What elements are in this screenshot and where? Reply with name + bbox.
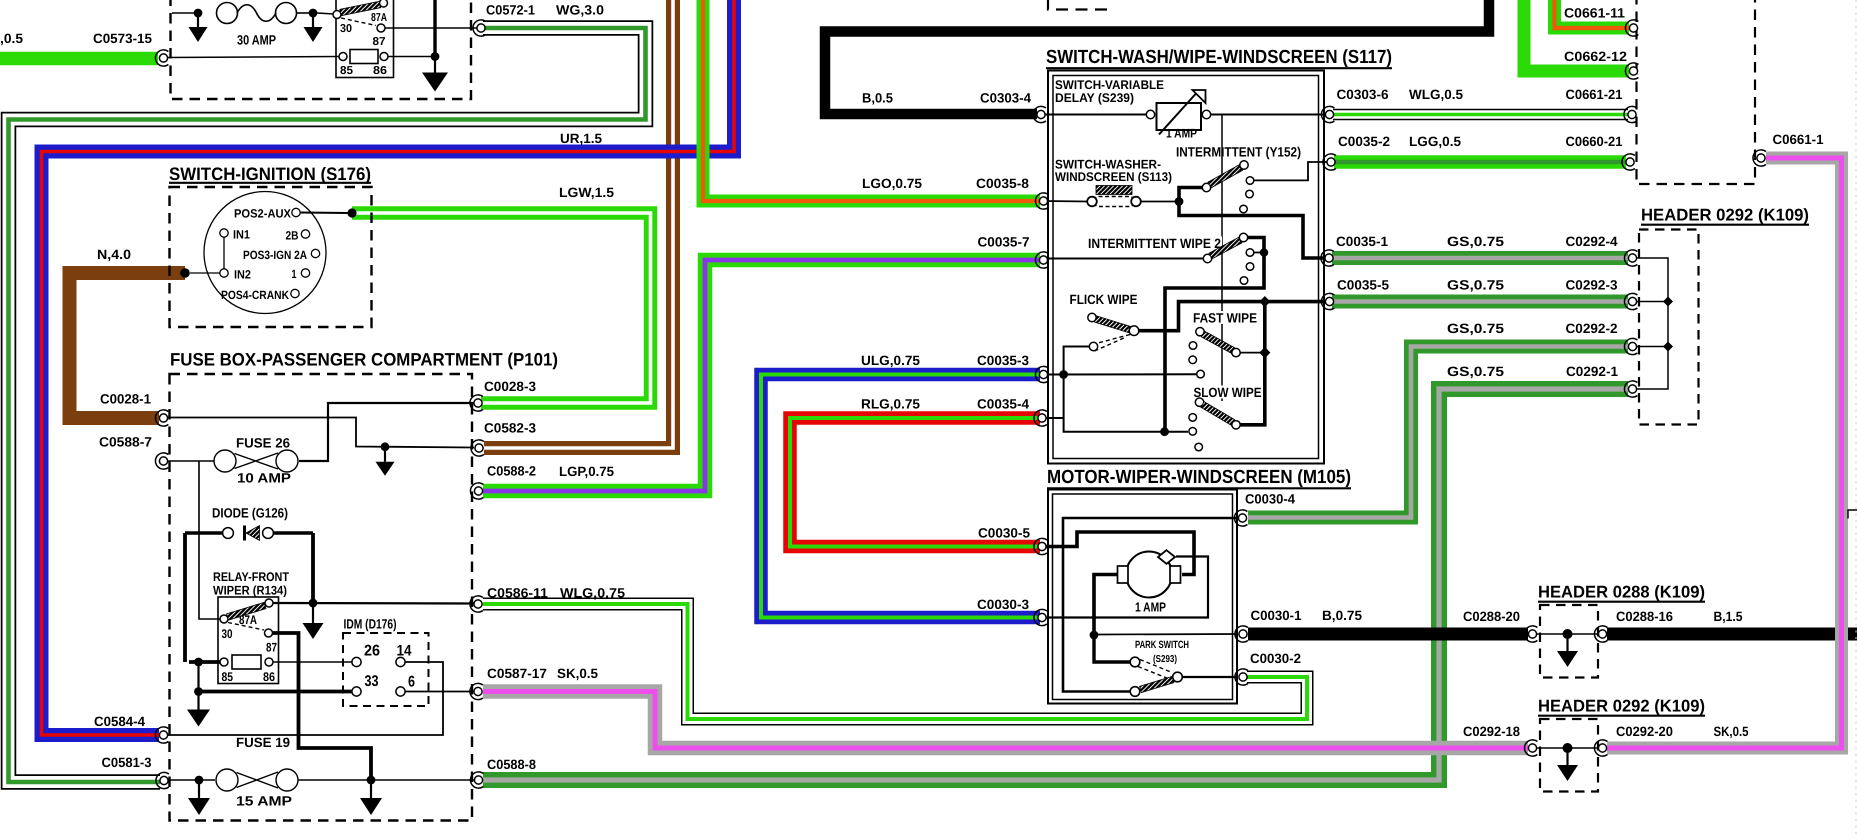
pin IN2 [220, 269, 228, 277]
junction LGW start [347, 208, 356, 217]
wire C0030-3 to motor diamond [1044, 557, 1208, 618]
slow contact 3 [1195, 443, 1203, 451]
junction wipe2 contact [1260, 248, 1268, 256]
junction fuse 19 row right [367, 776, 376, 785]
wire C0030-5 to motor brush right [1044, 532, 1194, 575]
wire C0030-4 into box [1063, 518, 1238, 692]
connector C0661-1 [1753, 150, 1766, 166]
wire UR,1.5 top edge to C0584-4 [42, 0, 735, 735]
flick pivot [1129, 326, 1139, 336]
wire 86 to IDM pin 26 [273, 661, 352, 663]
connector C0303-6 [1321, 106, 1334, 122]
wire LGP,0.75 C0588-2 to C0035-7 [483, 260, 1040, 491]
svg-text:C0292-1: C0292-1 [1566, 364, 1618, 379]
svg-text:RLG,0.75: RLG,0.75 [861, 397, 920, 412]
svg-text:C0581-3: C0581-3 [102, 755, 152, 770]
IDM pin 26 [352, 657, 361, 666]
wire WLG,0.5 C0303-6 to C0661-21 [1333, 109, 1628, 121]
connector C0584-4 [155, 727, 168, 743]
svg-text:MOTOR-WIPER-WINDSCREEN (M105): MOTOR-WIPER-WINDSCREEN (M105) [1047, 467, 1351, 488]
wire pin 87 to C0572-1 [385, 27, 478, 29]
svg-text:C0588-7: C0588-7 [99, 435, 152, 450]
svg-text:DIODE (G126): DIODE (G126) [212, 506, 288, 521]
connector C0292-3 [1624, 293, 1637, 309]
svg-text:C0588-8: C0588-8 [487, 757, 536, 772]
svg-text:C0582-3: C0582-3 [484, 421, 536, 436]
wire ULG,0.75 C0035-3 to C0030-3 [761, 375, 1040, 618]
IDM pin 6 [396, 687, 405, 696]
svg-text:IDM (D176): IDM (D176) [344, 617, 397, 632]
svg-text:FUSE 19: FUSE 19 [236, 735, 290, 750]
junction slow row [1160, 427, 1169, 436]
svg-text:SWITCH-IGNITION (S176): SWITCH-IGNITION (S176) [169, 164, 371, 184]
svg-text:85: 85 [340, 65, 354, 77]
svg-text:C0572-1: C0572-1 [486, 3, 535, 18]
ground below relay [422, 57, 448, 92]
underline HEADER 0288 [1538, 601, 1705, 603]
fast contact 1 [1189, 342, 1197, 350]
wire Y152 contact1 to C0035-2 [1254, 162, 1328, 180]
wire R134 87 down and to fuse 19 row [273, 633, 372, 778]
connector C0292-20 [1594, 740, 1607, 756]
wipe2 pivot [1203, 254, 1211, 262]
wire 33 row to IDM pin 33 [199, 690, 352, 694]
svg-text:(S293): (S293) [1153, 654, 1177, 665]
wire B,1.5 C0288-16 to right edge [1607, 628, 1857, 641]
R134 pin 30 pivot [220, 615, 228, 623]
resistor pin right [1202, 110, 1210, 118]
wipe2 contact 2 [1246, 263, 1254, 271]
relay pin 30 pivot [333, 11, 341, 19]
park dashed blade b [1138, 667, 1168, 679]
wire pin 86 to junction [388, 56, 435, 58]
wire top edge down to 86 row [433, 0, 436, 57]
wire tap down to relay pin 30 [199, 461, 220, 619]
svg-text:C0573-15: C0573-15 [93, 31, 152, 46]
svg-text:C0584-4: C0584-4 [94, 714, 145, 729]
svg-text:87A: 87A [239, 613, 257, 627]
wire brush left down [1094, 575, 1118, 636]
svg-text:B,0.75: B,0.75 [1322, 608, 1362, 623]
IDM D176 (dashed) [343, 633, 429, 706]
underline HEADER 0292 top [1641, 224, 1809, 226]
connector C0028-1 [155, 410, 168, 426]
svg-text:ULG,0.75: ULG,0.75 [861, 353, 920, 368]
wire LGO C0661-11 to top edge [1555, 0, 1630, 28]
svg-text:SWITCH-VARIABLE: SWITCH-VARIABLE [1055, 78, 1164, 92]
junction at fuse input [194, 9, 203, 18]
junction K109 a [1663, 297, 1673, 307]
wire C0303-4 to resistor [1044, 114, 1147, 116]
connector C0581-3 [156, 772, 169, 788]
junction 33 row [194, 687, 203, 696]
svg-text:C0030-4: C0030-4 [1245, 492, 1295, 507]
wire wipe2 contact1 stub [1254, 252, 1262, 254]
relay (cut at top) [336, 0, 394, 78]
wire POS2-AUX to LGW [301, 212, 350, 215]
ground below fuse19 left [188, 780, 210, 815]
ground at fuse output [304, 13, 323, 42]
wire 85 row [189, 660, 220, 664]
wire K109 pin 3 [1637, 301, 1668, 303]
svg-text:C0292-20: C0292-20 [1616, 724, 1673, 739]
svg-text:14: 14 [397, 643, 412, 660]
connector C0292-1 [1624, 381, 1637, 397]
relay-front wiper R134 [218, 597, 279, 684]
wire IDM pin 6 to C0587-17 [406, 691, 475, 693]
wire C0573-15 to pin 85 [167, 57, 339, 58]
wire LG C0662-12 to top edge [1524, 0, 1629, 71]
connector C0035-7 [1035, 252, 1048, 268]
svg-text:SK,0.5: SK,0.5 [557, 666, 598, 681]
junction motor common [1090, 631, 1099, 640]
pin 2B [301, 230, 309, 238]
relay coil [350, 50, 378, 64]
connector C0662-12 [1625, 63, 1638, 79]
connector C0035-3 [1035, 366, 1048, 382]
R134 pin 86 [265, 658, 273, 666]
park pivot [1173, 672, 1183, 682]
svg-text:C0030-5: C0030-5 [978, 526, 1030, 541]
connector C0303-4 [1033, 106, 1046, 122]
svg-text:C0030-2: C0030-2 [1250, 651, 1301, 666]
svg-text:GS,0.75: GS,0.75 [1447, 364, 1505, 379]
wire WLG,0.75 C0586-11 to C0030-2 [483, 604, 1307, 719]
R134 pin 87 [265, 629, 273, 637]
junction 86 row [431, 52, 440, 61]
Y152 blade tip [1240, 161, 1248, 169]
wire flick pivot to C0035-5 row [1139, 302, 1326, 331]
page edge dotted [1855, 0, 1857, 834]
flick dashed blade a [1098, 335, 1130, 344]
wire diode left leg down [183, 533, 187, 662]
slow pivot [1195, 398, 1203, 406]
wire C0028-3 to fuse 26 [299, 403, 474, 461]
svg-text:30 AMP: 30 AMP [237, 33, 276, 48]
connector box fragment (top, cut) [1048, 0, 1112, 10]
resistor pin left [1146, 110, 1154, 118]
junction fast tip bus [1259, 347, 1270, 358]
svg-text:LGP,0.75: LGP,0.75 [559, 464, 614, 479]
underline S176 [169, 182, 371, 184]
connector C0588-7 [155, 453, 168, 469]
svg-text:C0661-21: C0661-21 [1566, 87, 1623, 102]
svg-text:C0661-1: C0661-1 [1773, 132, 1824, 147]
svg-text:C0292-4: C0292-4 [1566, 234, 1618, 249]
connector bracket right edge [1848, 510, 1857, 519]
wire header 0292 link [1537, 747, 1598, 749]
wire junction to Y152 pivot [1179, 188, 1202, 202]
junction fuse 19 row left [195, 776, 204, 785]
junction header 0288 [1563, 629, 1573, 639]
fast contact 3 [1197, 370, 1205, 378]
wipe2 blade tip [1239, 233, 1247, 241]
wire SK,0.5 C0587-17 to C0292-18 [483, 692, 1528, 749]
svg-text:C0030-3: C0030-3 [977, 597, 1029, 612]
svg-text:HEADER 0292 (K109): HEADER 0292 (K109) [1641, 206, 1809, 225]
wire S113 bus down to C0035-1 [1179, 202, 1328, 259]
park blade [1140, 676, 1174, 692]
wire C0035-4 link [1044, 417, 1064, 419]
svg-text:SK,0.5: SK,0.5 [1714, 724, 1749, 739]
wire SK,0.5 C0292-20 to C0661-1 [1607, 158, 1842, 748]
svg-text:SWITCH-WASH/WIPE-WINDSCREEN (S: SWITCH-WASH/WIPE-WINDSCREEN (S117) [1046, 47, 1392, 68]
connector C0288-16 [1594, 626, 1607, 642]
svg-text:PARK SWITCH: PARK SWITCH [1135, 639, 1189, 651]
ground below C0582 junction [376, 447, 395, 476]
slow contact 1 [1189, 414, 1197, 422]
pin POS3-IGN 2A [311, 249, 319, 257]
connector C0292-4 [1624, 250, 1637, 266]
Y152 contact 2 [1246, 190, 1254, 198]
motor-wiper-windscreen M105 box (double border) [1048, 490, 1237, 704]
svg-text:C0587-17: C0587-17 [487, 666, 547, 681]
ground header 0292 [1557, 748, 1578, 781]
wire C0588-7 to fuse 26 and relay 30 tap [167, 460, 214, 462]
wire RLG,0.75 C0035-4 to C0030-5 [790, 418, 1040, 547]
junction K109 b [1663, 342, 1673, 352]
connector C0588-8 [470, 772, 483, 788]
junction S113 output [1175, 197, 1184, 206]
slow contact 2 [1189, 428, 1197, 436]
wire fuse to junction [296, 12, 312, 14]
svg-text:WLG,0.75: WLG,0.75 [560, 586, 626, 601]
wire C0035-8 to S113 [1044, 200, 1088, 203]
wire header 0288 link [1537, 633, 1598, 635]
svg-text:FAST WIPE: FAST WIPE [1193, 311, 1257, 326]
fast blade tip [1232, 348, 1240, 356]
ground at fuse input [189, 13, 208, 42]
connector C0572-1 [473, 20, 486, 36]
underline HEADER 0292 bottom [1538, 715, 1705, 717]
junction 87A row [309, 599, 318, 608]
S113 pin right [1131, 197, 1141, 207]
svg-text:WIPER (R134): WIPER (R134) [213, 584, 287, 598]
junction N wire [180, 268, 190, 278]
wire S113 to junction [1141, 201, 1175, 203]
svg-text:UR,1.5: UR,1.5 [560, 131, 602, 146]
svg-text:LGW,1.5: LGW,1.5 [559, 185, 615, 200]
park dashed blade a [1140, 660, 1172, 673]
svg-text:C0028-3: C0028-3 [484, 379, 536, 394]
wire IN1 to IN2 [223, 238, 225, 269]
wire junction to C0030-1 [1098, 633, 1238, 636]
svg-text:C0292-2: C0292-2 [1566, 321, 1618, 336]
wire GS,0.75 C0035-1 to C0292-4 [1332, 251, 1628, 265]
junction at fuse output [309, 9, 318, 18]
svg-text:C0303-4: C0303-4 [980, 91, 1031, 106]
svg-text:1 AMP: 1 AMP [1135, 600, 1166, 615]
wire LGG,0.5 C0035-2 to C0660-21 [1334, 155, 1626, 169]
R134 blade 30-87A [227, 602, 266, 620]
svg-text:C0292-3: C0292-3 [1566, 278, 1618, 293]
svg-text:85: 85 [222, 670, 234, 684]
wipe2 contact 1 [1246, 249, 1254, 257]
S113 pin left [1087, 197, 1097, 207]
ground below fuse19 right [360, 780, 382, 815]
flick contact down [1089, 342, 1097, 350]
wire park pivot to C0030-2 [1183, 676, 1239, 678]
svg-text:WG,3.0: WG,3.0 [556, 3, 604, 18]
svg-text:IN2: IN2 [234, 268, 251, 282]
svg-text:C0035-7: C0035-7 [978, 235, 1030, 250]
wire C0581-3 to fuse 19 [169, 779, 215, 781]
diode G126 [185, 526, 313, 541]
park contact down [1130, 687, 1140, 697]
fuse box-passenger compartment (dashed) [170, 374, 473, 821]
connector C0573-15 [155, 50, 168, 66]
pin POS4-CRANK [291, 289, 299, 297]
svg-text:POS3-IGN 2A: POS3-IGN 2A [243, 248, 307, 262]
connector C0030-3 [1034, 609, 1047, 625]
wire C0035-7 to wipe2 pivot [1044, 258, 1203, 260]
svg-text:C0661-11: C0661-11 [1564, 6, 1625, 21]
fast blade [1201, 331, 1234, 353]
svg-text:C0028-1: C0028-1 [100, 392, 151, 407]
park contact up [1130, 657, 1140, 667]
svg-text:HEADER 0292 (K109): HEADER 0292 (K109) [1538, 697, 1705, 716]
connector C0035-5 [1321, 293, 1334, 309]
pin IN1 [220, 229, 228, 237]
wire resistor tap down (delay bus) [1221, 115, 1223, 402]
ignition switch circle [204, 192, 326, 314]
svg-text:C0035-2: C0035-2 [1338, 134, 1390, 149]
wire junction to park switch [1094, 635, 1130, 662]
pin POS2-AUX [292, 208, 300, 216]
wire fast tip to bus [1241, 352, 1263, 354]
wire fuse 19 to C0588-8 [298, 779, 474, 781]
svg-text:33: 33 [365, 673, 379, 690]
flick dashed blade b [1095, 338, 1126, 352]
connector C0582-3 [471, 440, 484, 456]
wire B,0.5 top edge to C0303-4 [825, 0, 1489, 114]
svg-text:10 AMP: 10 AMP [237, 471, 291, 486]
connector C0028-3 [470, 395, 483, 411]
IDM pin 14 [396, 657, 405, 666]
svg-text:LGO,0.75: LGO,0.75 [862, 176, 922, 191]
svg-text:C0035-3: C0035-3 [977, 353, 1029, 368]
relay pin 87A [380, 0, 388, 7]
svg-text:INTERMITTENT (Y152): INTERMITTENT (Y152) [1176, 145, 1301, 160]
connector C0292-18 [1524, 740, 1537, 756]
underline S117 [1046, 67, 1392, 69]
svg-text:POS2-AUX: POS2-AUX [234, 207, 291, 221]
svg-text:WINDSCREEN (S113): WINDSCREEN (S113) [1055, 170, 1172, 184]
fusible link 30 AMP [217, 3, 297, 24]
wire WG,3.0 C0572-1 to C0581-3 [9, 28, 646, 782]
wire diode right leg down to 87A row [311, 533, 315, 603]
connector C0661-21 [1624, 106, 1637, 122]
wire C0028-1 to C0582-3 junction [168, 418, 474, 448]
wire LGO,0.75 top edge to C0035-8 [703, 0, 1040, 201]
svg-text:86: 86 [373, 65, 387, 77]
svg-text:30: 30 [340, 23, 352, 35]
svg-text:15 AMP: 15 AMP [236, 794, 292, 809]
junction C0582-3 row [381, 442, 390, 451]
R134 pin 85 [220, 658, 228, 666]
wire C0035-3 row [1044, 373, 1196, 375]
wire GS,0.75 C0035-5 to C0292-3 [1332, 295, 1628, 309]
svg-text:87: 87 [373, 36, 386, 48]
header 0292 bottom box (dashed) [1540, 719, 1598, 792]
wire N to IN2 [190, 272, 220, 274]
R134 dashed contact to 87 [228, 623, 264, 631]
switch-washer-windscreen S113 symbol [1096, 186, 1132, 195]
svg-text:C0586-11: C0586-11 [487, 586, 548, 601]
svg-text:FUSE BOX-PASSENGER COMPARTMENT: FUSE BOX-PASSENGER COMPARTMENT (P101) [170, 350, 558, 370]
wire K109 pins bus [1637, 258, 1668, 389]
wire junction down [197, 662, 199, 692]
svg-text:GS,0.75: GS,0.75 [1447, 234, 1505, 249]
svg-text:SLOW WIPE: SLOW WIPE [1194, 385, 1262, 400]
wire GS,0.75 C0588-8 to C0292-1 [483, 389, 1628, 780]
ground below 87A junction [303, 603, 324, 639]
junction 85 row [194, 658, 203, 667]
junction C0035-3 row [1059, 370, 1068, 379]
slow blade tip [1232, 421, 1240, 429]
R134 pin 87A [265, 599, 273, 607]
svg-text:RELAY-FRONT: RELAY-FRONT [213, 570, 289, 584]
wire GS,0.75 C0030-4 to C0292-2 [1248, 347, 1628, 518]
wire fast/slow bus [1241, 302, 1265, 425]
svg-text:INTERMITTENT WIPE 2: INTERMITTENT WIPE 2 [1088, 236, 1221, 251]
underline M105 [1047, 487, 1351, 489]
svg-text:GS,0.75: GS,0.75 [1447, 321, 1505, 336]
svg-text:C0030-1: C0030-1 [1251, 608, 1302, 623]
ground header 0288 [1557, 634, 1578, 667]
svg-text:1: 1 [292, 267, 297, 281]
switch-wash/wipe-windscreen S117 box (double border) [1048, 71, 1324, 464]
Y152 pivot [1202, 183, 1210, 191]
svg-text:B,0.5: B,0.5 [862, 91, 893, 106]
connector C0035-1 [1321, 250, 1334, 266]
connector C0292-2 [1624, 338, 1637, 354]
relay dashed contact to 87 [341, 18, 376, 26]
wipe2 contact 3 [1240, 277, 1248, 285]
Y152 blade [1208, 165, 1243, 188]
fast contact 2 [1189, 356, 1197, 364]
wire B,0.75 C0030-1 to C0288-20 [1248, 628, 1528, 641]
relay pin 85 [339, 53, 347, 61]
svg-text:HEADER 0288 (K109): HEADER 0288 (K109) [1538, 583, 1705, 602]
svg-text:C0035-8: C0035-8 [976, 176, 1029, 191]
svg-text:FLICK WIPE: FLICK WIPE [1070, 292, 1138, 307]
connector C0661-11 [1625, 20, 1638, 36]
svg-text:C0288-20: C0288-20 [1463, 609, 1520, 624]
connector C0030-4 [1234, 510, 1247, 526]
wire LG,0.5 C0573-15 [0, 52, 158, 66]
connector C0587-17 [470, 683, 483, 699]
wire 87A row to C0586-11 [273, 602, 474, 605]
wire link down [1064, 375, 1188, 432]
fuse box-engine compartment (dashed, cut at top) [171, 0, 472, 99]
switch-ignition box (dashed) [170, 187, 372, 327]
svg-text:C0035-5: C0035-5 [1337, 278, 1389, 293]
wire N,4.0 IN2 to C0028-1 [70, 273, 186, 418]
svg-text:C0035-4: C0035-4 [977, 397, 1029, 412]
svg-text:26: 26 [364, 643, 380, 660]
connector C0030-2 [1235, 669, 1248, 685]
svg-text:C0035-1: C0035-1 [1336, 234, 1388, 249]
connector C0035-2 [1323, 154, 1336, 170]
svg-text:,0.5: ,0.5 [0, 31, 23, 46]
header 0288 box (dashed) [1540, 605, 1598, 678]
wipe2 blade [1209, 237, 1242, 259]
slow blade [1201, 402, 1235, 426]
svg-text:LGG,0.5: LGG,0.5 [1409, 134, 1461, 149]
wire resistor to C0303-6 [1211, 114, 1327, 116]
relay pin 87 [377, 24, 385, 32]
